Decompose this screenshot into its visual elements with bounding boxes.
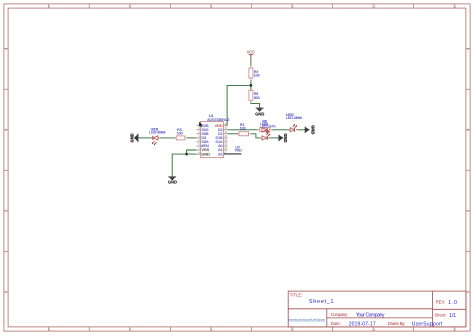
svg-text:D: D [467,129,469,132]
svg-text:TITLE:: TITLE: [290,293,303,298]
svg-text:UserSupport: UserSupport [412,322,443,328]
wire LED3 to R3 [160,137,176,139]
U1 pin 11 A0 [218,144,228,148]
resistor R6 (overlapping LED1) [257,120,272,132]
svg-text:A2: A2 [218,152,223,156]
IC U1 ADG733BRUZ [200,114,230,158]
tiny url text in title block [288,317,325,321]
svg-text:100: 100 [254,74,260,78]
svg-text:PAD: PAD [235,149,242,153]
svg-text:1.0: 1.0 [448,300,457,306]
wire junction to U1 VDD pin [227,85,251,125]
svg-text:1/1: 1/1 [449,313,456,319]
svg-text:LED-3MM: LED-3MM [149,130,165,134]
U1 pin 13 S1B [215,136,227,140]
ground right of LED2 [305,125,315,134]
wire R6 to LED2 [272,129,290,131]
junction VSS/GND [185,153,188,156]
resistor R5 [249,90,260,103]
LED LED4 [261,132,270,140]
wire U1 D1 pin to R1 [228,133,239,135]
title block [288,291,466,327]
svg-text:Date:: Date: [331,321,341,326]
svg-text:Drawn By:: Drawn By: [388,321,406,326]
svg-text:GND: GND [255,112,264,117]
svg-text:GND: GND [310,125,315,134]
junction at R4/R5 node [250,84,253,87]
LED LED3 [149,127,165,145]
U1 pin 15 D2 [218,128,228,132]
wire LED2 to GND [297,129,305,131]
U1 pin 6 #EN [196,144,209,148]
svg-text:Company:: Company: [331,312,348,317]
U1 pin 7 VSS [196,148,209,152]
wire R1 to LED4 (jog down) [251,134,261,138]
wire VCC to R4 [250,57,252,66]
svg-text:LED-3MM: LED-3MM [260,124,276,128]
svg-text:GND: GND [283,133,288,142]
wire LED4 to GND [269,137,279,139]
pad U2 [224,145,242,154]
svg-text:H: H [5,291,7,294]
LED LED2 [286,113,302,132]
svg-text:300: 300 [254,96,260,100]
wire R3 to U1 D3 pin [187,137,196,139]
U1 pin 16 VDD [215,124,228,128]
U1 pin 12 S1A [215,140,227,144]
svg-text:GND: GND [168,179,177,184]
U1 pin 2 S2A [196,128,209,132]
svg-text:Your Company: Your Company [356,313,385,319]
U1 pin 5 S3A [196,140,209,144]
resistor R1 [237,123,251,136]
svg-text:Sheet_1: Sheet_1 [309,299,334,305]
svg-text:100: 100 [177,131,183,135]
resistor R4 [249,65,260,80]
svg-text:VCC: VCC [247,49,255,54]
svg-text:D: D [5,129,7,132]
ground under R5 [255,108,264,116]
U1 pin 10 A1 [218,148,228,152]
wire GND to LED3 [138,137,152,139]
wire R4 to R5 through junction [250,80,252,90]
svg-text:Sheet:: Sheet: [434,313,446,318]
svg-text:GND: GND [129,133,134,142]
mouse cursor [199,122,202,127]
svg-text:GND: GND [201,152,210,156]
resistor R3 [174,128,187,140]
ground left of LED3 [129,133,138,142]
svg-text:easyeda.com/support/UserSuppor: easyeda.com/support/UserSupport [288,317,325,321]
wire U1 VSS pin jog to GND net [187,150,197,154]
svg-text:REV:: REV: [436,300,446,305]
wire R5 to GND [251,103,260,108]
U1 pin 1 S2B [196,124,209,128]
ground under U1 [168,177,177,184]
svg-text:2019-07-17: 2019-07-17 [349,322,376,328]
power flag VCC [247,49,255,57]
svg-text:LED-3MM: LED-3MM [286,116,302,120]
svg-text:100: 100 [240,126,246,130]
svg-text:H: H [467,291,469,294]
U1 pin 8 GND [196,152,210,156]
U1 pin 3 S3B [196,132,209,136]
U1 pin 14 D1 [218,132,228,136]
U1 pin 4 D3 [196,136,206,140]
ground right of LED4 [279,133,288,142]
wire U1 GND pin to ground [172,154,196,177]
wire U1 D2 pin to R6 [228,129,258,131]
U1 pin 9 A2 [218,152,228,156]
LED LED1 (overlapping R6) [260,122,276,133]
